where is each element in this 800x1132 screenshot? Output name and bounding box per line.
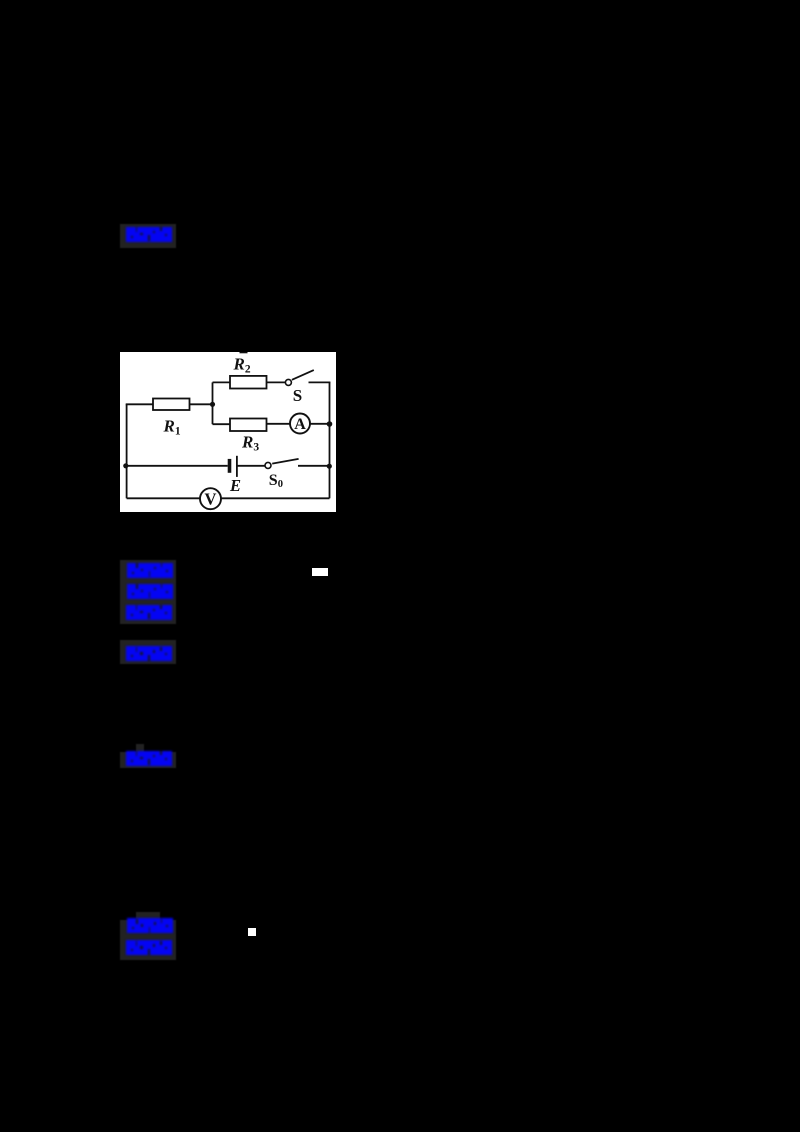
highlight box label 2 [120, 640, 176, 664]
highlight box label 3 [120, 752, 176, 768]
svg-text:V: V [205, 490, 217, 509]
wire ammeter to right rail [310, 423, 330, 425]
junction node battery row right [327, 464, 332, 469]
junction node battery row left [123, 463, 128, 468]
blue label text 1 [126, 227, 172, 242]
resistor R3 [230, 419, 267, 432]
blue answer line 1 [127, 563, 173, 578]
white inline formula box 2 [248, 928, 256, 936]
wire S0 to right rail [298, 465, 330, 467]
resistor R1 [153, 399, 190, 411]
junction node after R1 [210, 402, 215, 407]
blue label text 2 [126, 647, 172, 662]
wire battery row [126, 465, 228, 467]
highlight box label 4 bump [136, 912, 160, 921]
blue answer line 2 [127, 584, 173, 599]
highlight box label 4 [120, 920, 176, 960]
top edge artifact dash [240, 352, 248, 353]
blue label line 4a [127, 919, 173, 934]
wire R3 to ammeter [267, 423, 291, 425]
highlight box answers block [120, 560, 176, 624]
svg-text:A: A [294, 416, 306, 433]
battery E positive plate [236, 456, 238, 477]
svg-text:R1: R1 [163, 417, 181, 438]
ammeter A1 [290, 414, 310, 434]
svg-text:R2: R2 [233, 355, 251, 376]
blue answer line 3 [126, 605, 172, 620]
wire right rail [329, 382, 331, 498]
svg-text:E: E [229, 476, 241, 495]
wire lower branch to R3 [213, 423, 231, 425]
circuit figure panel [120, 352, 336, 512]
wire R2 to switch S [267, 381, 286, 383]
wire R1 to node [190, 403, 213, 405]
highlight box label 3 bump [136, 744, 144, 753]
switch S lever [292, 370, 314, 380]
wire switch S to right rail [309, 381, 331, 383]
voltmeter V1 [200, 488, 221, 509]
wire left rail [126, 404, 128, 498]
svg-text:S0: S0 [269, 472, 283, 490]
svg-text:S: S [293, 386, 302, 405]
blue label line 4b [126, 941, 172, 956]
wire bottom [127, 497, 330, 499]
switch S pivot [285, 379, 291, 385]
blue label text 3 [126, 751, 172, 766]
wire top branch to R2 [213, 381, 231, 383]
resistor R2 [230, 376, 267, 389]
svg-text:R3: R3 [241, 433, 259, 454]
wire top-left to R1 [126, 403, 153, 405]
switch S0 pivot [265, 462, 271, 468]
junction node ammeter-right rail [327, 421, 333, 427]
highlight box label 1 [120, 224, 176, 248]
wire branch vertical [212, 382, 214, 424]
battery E negative plate [228, 459, 232, 473]
switch S0 lever [272, 459, 298, 464]
white inline formula box 1 [312, 568, 328, 576]
wire battery to switch S0 [237, 465, 265, 467]
